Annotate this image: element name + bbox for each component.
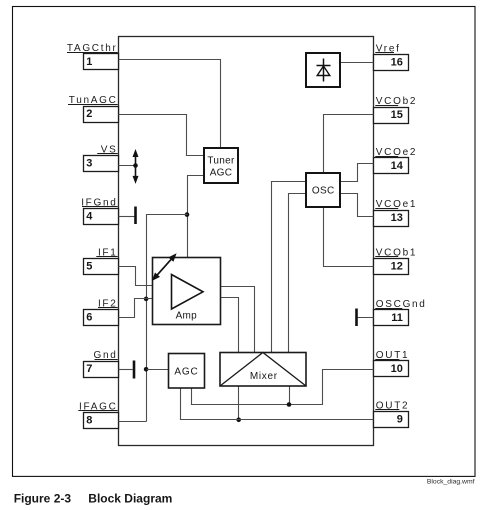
pin 16 label Vref xyxy=(375,44,400,55)
ground bar pin7 xyxy=(133,361,136,379)
svg-text:12: 12 xyxy=(391,260,403,272)
VS double arrow symbol xyxy=(133,149,139,184)
wire pin1 TAGCthr to Tuner AGC top xyxy=(119,60,221,149)
wire diode box to pin16 Vref xyxy=(341,62,374,64)
pin 8 box (IFAGC) xyxy=(84,413,119,429)
IC body outline xyxy=(119,37,374,446)
wire OSC right to pin14 VCOe2 xyxy=(341,164,374,182)
pin 8 label IFAGC xyxy=(78,402,117,413)
svg-text:15: 15 xyxy=(391,109,403,121)
wire pin2 TunAGC to Tuner AGC left xyxy=(119,115,205,156)
pin 6 label IF2 xyxy=(98,298,118,309)
svg-text:9: 9 xyxy=(397,413,403,425)
wire Mixer bottom to OUT2 line xyxy=(238,387,240,420)
pin 9 label OUT2 xyxy=(375,400,409,411)
wire OSC left lower to Mixer top xyxy=(289,194,307,353)
pin 5 label IF1 xyxy=(96,248,117,259)
wire OSC bottom to pin12 VCOb1 xyxy=(324,207,374,267)
svg-text:Block_diag.wmf: Block_diag.wmf xyxy=(427,479,475,486)
pin 12 box (VCOb1) xyxy=(374,259,409,275)
wire AGC out1 to pin9 OUT2 xyxy=(181,389,374,420)
svg-text:6: 6 xyxy=(86,311,92,323)
wire pin4 IFGnd stub xyxy=(119,216,135,218)
pin 7 label Gnd xyxy=(93,350,117,361)
variable gain arrow on Amp xyxy=(152,253,177,281)
wire pin7 Gnd stub xyxy=(119,369,133,371)
svg-text:Mixer: Mixer xyxy=(250,371,278,382)
wire Amp out2 to Mixer top xyxy=(221,298,239,353)
svg-text:4: 4 xyxy=(86,211,93,223)
pin 13 box (VCOe1) xyxy=(374,211,409,227)
pin 15 box (VCOb2) xyxy=(374,108,409,124)
node junction Tuner AGC branch xyxy=(185,212,190,217)
wire Tuner AGC left lower to Amp top xyxy=(188,176,205,258)
pin 14 box (VCOe2) xyxy=(374,158,409,174)
node junction Mixer / OUT1 xyxy=(287,402,292,407)
svg-text:3: 3 xyxy=(86,157,92,169)
wire pin6 IF2 to Amp xyxy=(119,299,153,318)
svg-text:AGC: AGC xyxy=(174,367,198,378)
pin 1 box (TAGCthr) xyxy=(84,54,119,70)
wire OSCGnd ground to pin11 xyxy=(357,317,374,319)
pin 1 label TAGCthr xyxy=(67,43,118,54)
wire Amp out1 to Mixer top xyxy=(221,287,255,353)
svg-text:10: 10 xyxy=(391,363,403,375)
svg-text:7: 7 xyxy=(86,363,92,375)
svg-text:OSC: OSC xyxy=(312,185,335,196)
svg-text:14: 14 xyxy=(391,160,404,172)
pin 5 box (IF1) xyxy=(84,259,119,275)
svg-text:16: 16 xyxy=(391,57,403,69)
wire pin8 IFAGC to bus xyxy=(119,421,147,423)
pin 15 label VCOb2 xyxy=(375,96,417,107)
wire OSC left to Mixer top xyxy=(272,182,307,353)
svg-text:1: 1 xyxy=(86,56,92,68)
pin 9 box (OUT2) xyxy=(374,412,409,428)
ground bar pin4 xyxy=(134,207,137,225)
node junction AGC input / bus xyxy=(144,367,149,372)
wire Mixer bottom2 to OUT1 line xyxy=(289,387,291,405)
wire pin15 VCOb2 to OSC top xyxy=(324,115,374,174)
pin 12 label VCOb1 xyxy=(375,247,417,258)
pin 2 box (TunAGC) xyxy=(84,107,119,123)
svg-text:8: 8 xyxy=(86,415,92,427)
svg-text:13: 13 xyxy=(391,212,403,224)
block diode D1 (Vref) xyxy=(306,53,340,87)
wire branch to AGC bus xyxy=(147,215,188,422)
block OSC oscillator xyxy=(306,173,340,207)
svg-text:5: 5 xyxy=(86,261,92,273)
pin 13 label VCOe1 xyxy=(375,199,417,210)
pin 4 label IFGnd xyxy=(81,198,117,209)
wire bus to AGC box xyxy=(147,369,169,371)
ground bar pin11 OSCGnd xyxy=(355,309,358,327)
pin 3 label VS xyxy=(97,144,118,155)
pin 3 box (VS) xyxy=(84,156,119,172)
node junction IF2 / bus xyxy=(144,297,149,302)
node junction VS arrow xyxy=(133,163,138,168)
svg-text:Tuner: Tuner xyxy=(207,155,235,166)
svg-text:2: 2 xyxy=(86,108,92,120)
pin 7 box (Gnd) xyxy=(84,362,119,378)
wire pin5 IF1 to Amp xyxy=(119,267,153,286)
block AGC xyxy=(169,354,205,389)
svg-text:AGC: AGC xyxy=(210,168,233,179)
pin 10 label OUT1 xyxy=(375,350,409,361)
pin 4 box (IFGnd) xyxy=(84,209,119,225)
block Mixer xyxy=(220,353,306,387)
svg-text:11: 11 xyxy=(391,312,403,324)
block Amp amplifier xyxy=(153,258,221,325)
wire OSC right lower to pin13 VCOe1 xyxy=(341,194,374,217)
svg-text:Figure 2-3: Figure 2-3 xyxy=(14,492,72,506)
pin 11 box (OSCGnd) xyxy=(374,310,409,326)
pin 10 box (OUT1) xyxy=(374,361,409,377)
svg-text:Amp: Amp xyxy=(176,310,198,321)
pin 6 box (IF2) xyxy=(84,310,119,326)
pin 14 label VCOe2 xyxy=(375,147,417,158)
wire AGC out2 to pin10 OUT1 xyxy=(192,370,374,405)
block Tuner AGC U1 xyxy=(204,148,238,183)
pin 2 label TunAGC xyxy=(68,95,118,106)
pin 16 box (Vref) xyxy=(374,55,409,71)
node junction Mixer / OUT2 xyxy=(236,418,241,423)
pin 11 label OSCGnd xyxy=(375,299,426,310)
wire pin3 VS stub xyxy=(119,165,136,167)
svg-text:Block Diagram: Block Diagram xyxy=(88,492,172,506)
